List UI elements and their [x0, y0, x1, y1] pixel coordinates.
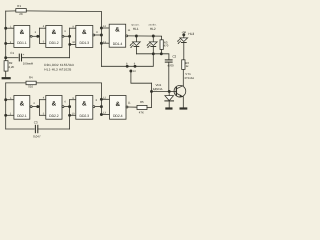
wire: DD1.4 output to R3 corner — [128, 36, 162, 40]
label pin 12b — [103, 96, 106, 99]
label 100мкФ value of C1 — [23, 61, 34, 65]
wire: base line from R5 vertical — [152, 90, 170, 92]
wire: split to DD2.2 pin5 — [40, 114, 46, 116]
op-amp/gate DD1.3 — [76, 26, 95, 48]
label pin 10b — [72, 112, 75, 115]
svg-text:C1: C1 — [10, 51, 14, 55]
label pin 3 — [35, 31, 37, 34]
label node C pin 10 — [133, 70, 136, 73]
label pin 9 — [72, 25, 74, 28]
svg-text:зелён.: зелён. — [148, 24, 157, 27]
label node A pin 8 — [126, 63, 128, 66]
note: chip types — [44, 63, 74, 67]
svg-text:510: 510 — [28, 84, 33, 88]
wire: split vertical down to C3 return — [69, 100, 71, 129]
svg-text:2,2К: 2,2К — [9, 65, 15, 69]
svg-text:красн.: красн. — [131, 24, 139, 27]
op-amp/gate DD1.4 — [109, 24, 127, 47]
svg-text:&: & — [82, 101, 87, 108]
wire: split to DD1.2 pin4 — [40, 27, 46, 29]
resistor R4 — [6, 81, 102, 85]
label node B pin 9 — [134, 63, 136, 66]
resistor R1 — [16, 9, 26, 13]
label pin 6b — [64, 101, 66, 104]
label R1 — [17, 4, 21, 8]
node: R3 bottom junction — [160, 52, 163, 55]
node: bus pin13 junction — [100, 42, 103, 45]
wire: bus to DD1.4 pin12 — [101, 27, 109, 29]
node: bus DD1.3 output junction — [100, 34, 103, 37]
op-amp/gate DD2.3 — [76, 96, 95, 120]
label pin 11b — [128, 102, 131, 105]
node: DD2.3 pin10 / C3 tap — [68, 114, 71, 117]
svg-text:0,047: 0,047 — [33, 134, 41, 138]
svg-text:VD1: VD1 — [156, 83, 162, 87]
label pin 8 — [96, 31, 98, 34]
ground under VT1 emitter — [180, 107, 188, 109]
label R5 — [140, 100, 144, 104]
svg-text:&: & — [20, 29, 25, 36]
op-amp/gate DD2.1 — [14, 96, 32, 120]
wire: bus2 to DD2.4 pin13 — [101, 114, 109, 116]
label pin 3b — [33, 102, 35, 105]
node: DD2.1 output split — [36, 105, 39, 108]
label gate DD1.1 designator — [17, 29, 27, 45]
wire: top rail to DD1.4 bus — [26, 10, 101, 13]
wire: R1 left lead — [6, 10, 16, 12]
label pin 6 — [64, 30, 66, 33]
label pin 5 — [43, 40, 45, 43]
svg-text:+5В: +5В — [181, 31, 186, 34]
svg-text:DD1.3: DD1.3 — [80, 41, 90, 45]
op-amp/gate DD1.1 — [14, 26, 32, 48]
label HL2 colour note — [148, 24, 157, 27]
label R3 — [164, 41, 168, 45]
node: DD2.1 pin1 junction — [4, 98, 7, 101]
wire: split vertical b — [39, 100, 41, 116]
node: DD2.1 pin2 junction — [4, 114, 7, 117]
label 470 value of R3 — [164, 44, 169, 48]
label VD1 — [156, 83, 162, 87]
svg-text:R4: R4 — [29, 75, 33, 79]
svg-text:&: & — [82, 29, 87, 36]
label pin 8b — [96, 99, 98, 102]
node: C1/R2 junction — [4, 56, 7, 59]
svg-text:100мкФ: 100мкФ — [23, 61, 34, 65]
label pin 1b — [10, 97, 12, 100]
svg-text:2К: 2К — [19, 12, 23, 16]
svg-text:DD2.4: DD2.4 — [113, 114, 123, 118]
node: bus pin12 junction — [100, 27, 103, 30]
label C2 — [172, 55, 176, 59]
wire: DD2.3 output to bus — [95, 106, 101, 108]
label 1к value of R6 — [186, 64, 190, 68]
ground under VD1 — [165, 107, 172, 109]
wire: bus to DD1.4 pin13 — [101, 42, 109, 44]
node B on DD1.3 output net — [134, 65, 137, 68]
resistor R6 — [182, 60, 185, 70]
node C terminal — [129, 70, 132, 73]
wire: DD1.3 output to bus — [95, 34, 101, 36]
label gate DD2.1 designator — [17, 101, 27, 118]
wire: cathode net to C2 — [136, 54, 169, 60]
svg-text:&: & — [52, 101, 57, 108]
label 2К value of R1 — [19, 12, 23, 16]
svg-text:R5: R5 — [140, 100, 144, 104]
svg-text:DD1.1: DD1.1 — [17, 41, 27, 45]
svg-text:&: & — [20, 101, 25, 108]
resistor R5 — [128, 83, 151, 109]
svg-text:&: & — [115, 27, 120, 34]
wire: bus2 to DD2.4 pin12 — [101, 98, 109, 100]
label R6 — [185, 61, 189, 65]
LED HL3 — [177, 35, 188, 60]
wire: split vertical down to C1 return — [69, 28, 71, 58]
label +5В — [181, 31, 186, 34]
wire: bus to DD1.1 pin2 — [6, 42, 14, 44]
label pin 13b — [103, 112, 106, 115]
svg-text:+: + — [23, 52, 25, 56]
label КД503А type of VD1 — [153, 88, 163, 91]
svg-text:DD1.4: DD1.4 — [113, 42, 123, 46]
svg-text:HL1: HL1 — [133, 27, 139, 31]
wire: DD2.1 left input bus — [5, 83, 7, 129]
svg-text:DD2.3: DD2.3 — [80, 114, 90, 118]
label gate DD2.2 designator — [49, 101, 59, 118]
label pin 4 — [43, 25, 45, 28]
svg-text:4700: 4700 — [167, 63, 174, 67]
svg-text:DD2.1: DD2.1 — [17, 114, 27, 118]
label КТ315А type of VT1 — [185, 77, 195, 80]
svg-text:HL2: HL2 — [150, 27, 156, 31]
capacitor C1 — [6, 54, 70, 61]
svg-text:DD1,DD2 К155ЛА3: DD1,DD2 К155ЛА3 — [44, 63, 74, 67]
wire: DD2.2 output to split — [64, 106, 69, 108]
svg-text:HL3: HL3 — [188, 32, 194, 36]
svg-text:C2: C2 — [172, 55, 176, 59]
svg-text:&: & — [115, 101, 120, 108]
node: DD1.3 pin10 / C1 tap — [68, 43, 71, 46]
label HL1 — [133, 27, 139, 31]
label 4700 value of C2 — [167, 63, 174, 67]
wire: bus down then right to HL2 cathode net — [101, 54, 153, 67]
wire: split vertical — [39, 28, 41, 43]
label 510 value of R4 — [28, 84, 33, 88]
label C1 polarity + — [23, 52, 25, 56]
wire: split to DD2.2 pin4 — [40, 99, 46, 101]
label C1 — [10, 51, 14, 55]
svg-text:47К: 47К — [139, 111, 144, 115]
label gate DD1.2 designator — [49, 29, 59, 45]
label R4 — [29, 75, 33, 79]
label pin 13 — [103, 41, 106, 44]
label gate DD2.3 designator — [80, 101, 90, 118]
label 2,2К value of R2 — [9, 65, 15, 69]
svg-text:C3: C3 — [34, 121, 38, 125]
wire: left input bus of DD1.1 — [5, 11, 7, 61]
capacitor C2 — [165, 60, 172, 92]
svg-text:КТ315А: КТ315А — [185, 77, 195, 80]
transistor VT1 — [169, 69, 186, 107]
label gate DD1.3 designator — [80, 29, 90, 45]
label gate DD1.4 designator — [113, 27, 123, 47]
wire: bus to DD2.1 pin2 — [6, 114, 14, 116]
op-amp/gate DD1.2 — [46, 26, 64, 48]
wire: tap to DD1.3 pin10 — [70, 43, 76, 45]
wire: bus to DD1.1 pin1 — [6, 27, 14, 29]
label pin 5b — [43, 112, 45, 115]
op-amp/gate DD2.2 — [46, 96, 64, 120]
label pin 11 — [128, 29, 131, 32]
svg-text:R1: R1 — [17, 4, 21, 8]
wire: bus to DD2.1 pin1 — [6, 99, 14, 101]
wire: split to DD1.2 pin5 — [40, 42, 46, 44]
label 0,047 value of C3 — [33, 134, 41, 138]
note: LED types — [44, 68, 71, 72]
svg-text:470: 470 — [164, 44, 169, 48]
svg-text:VT1: VT1 — [185, 72, 191, 76]
wire: node C down and right to R5 vertical — [131, 71, 152, 83]
label pin 9b — [72, 97, 74, 100]
node: DD1.1 output split — [36, 35, 39, 38]
op-amp/gate DD2.4 — [110, 96, 128, 120]
node: HL2 cathode junction — [152, 52, 155, 55]
wire: DD2.4 input bus vertical — [100, 83, 102, 115]
node: base junction C2/VD1/base — [168, 90, 171, 93]
label gate DD2.4 designator — [113, 101, 123, 118]
terminal +5В — [182, 33, 185, 36]
wire: tap to DD2.3 pin10 — [70, 114, 76, 116]
label HL3 — [188, 32, 194, 36]
label pin 1 — [10, 25, 12, 28]
LED HL2 — [147, 35, 158, 54]
wire: split to DD1.3 pin9 — [70, 27, 76, 29]
svg-text:DD2.2: DD2.2 — [49, 114, 59, 118]
resistor R2 — [4, 61, 8, 77]
label C3 — [34, 121, 38, 125]
node: bus2 pin12 junction — [100, 98, 103, 101]
svg-text:HL1-HL3 АЛ102Б: HL1-HL3 АЛ102Б — [44, 68, 71, 72]
label 47К value of R5 — [139, 111, 144, 115]
label pin 10 — [72, 41, 75, 44]
wire: DD2.1 output to split — [32, 106, 39, 108]
node: DD1.1 pin1 junction — [4, 27, 7, 30]
node: bus2 DD2.3 output junction — [100, 105, 103, 108]
svg-text:&: & — [52, 29, 57, 36]
ground under R2 — [2, 77, 11, 79]
wire: DD1.4 input bus vertical — [100, 12, 102, 67]
svg-text:КД503А: КД503А — [153, 88, 163, 91]
wire: DD1.1 output to split — [32, 35, 39, 37]
label pin 4b — [43, 97, 45, 100]
label pin 2b — [10, 113, 12, 116]
label pin 2 — [10, 41, 12, 44]
node: R5 vertical tap — [150, 90, 153, 93]
label pin 12 — [103, 25, 106, 28]
node: bus2 pin13 junction — [100, 113, 103, 116]
label R2 — [9, 61, 13, 65]
wire: DD1.2 output to split — [64, 35, 69, 37]
label HL2 — [150, 27, 156, 31]
resistor R3 — [160, 40, 163, 54]
node: DD1.2 output split — [68, 35, 71, 38]
node: DD2.2 output split — [68, 105, 71, 108]
node: DD1.1 pin2 junction — [4, 42, 7, 45]
LED HL1 — [130, 35, 141, 54]
wire: split to DD2.3 pin9 — [70, 99, 76, 101]
label HL1 colour note — [131, 24, 139, 27]
diode VD1 — [165, 91, 174, 107]
capacitor C3 — [6, 125, 70, 132]
node A on DD1.3 output net — [126, 65, 129, 68]
label VT1 — [185, 72, 191, 76]
svg-text:DD1.2: DD1.2 — [49, 41, 59, 45]
